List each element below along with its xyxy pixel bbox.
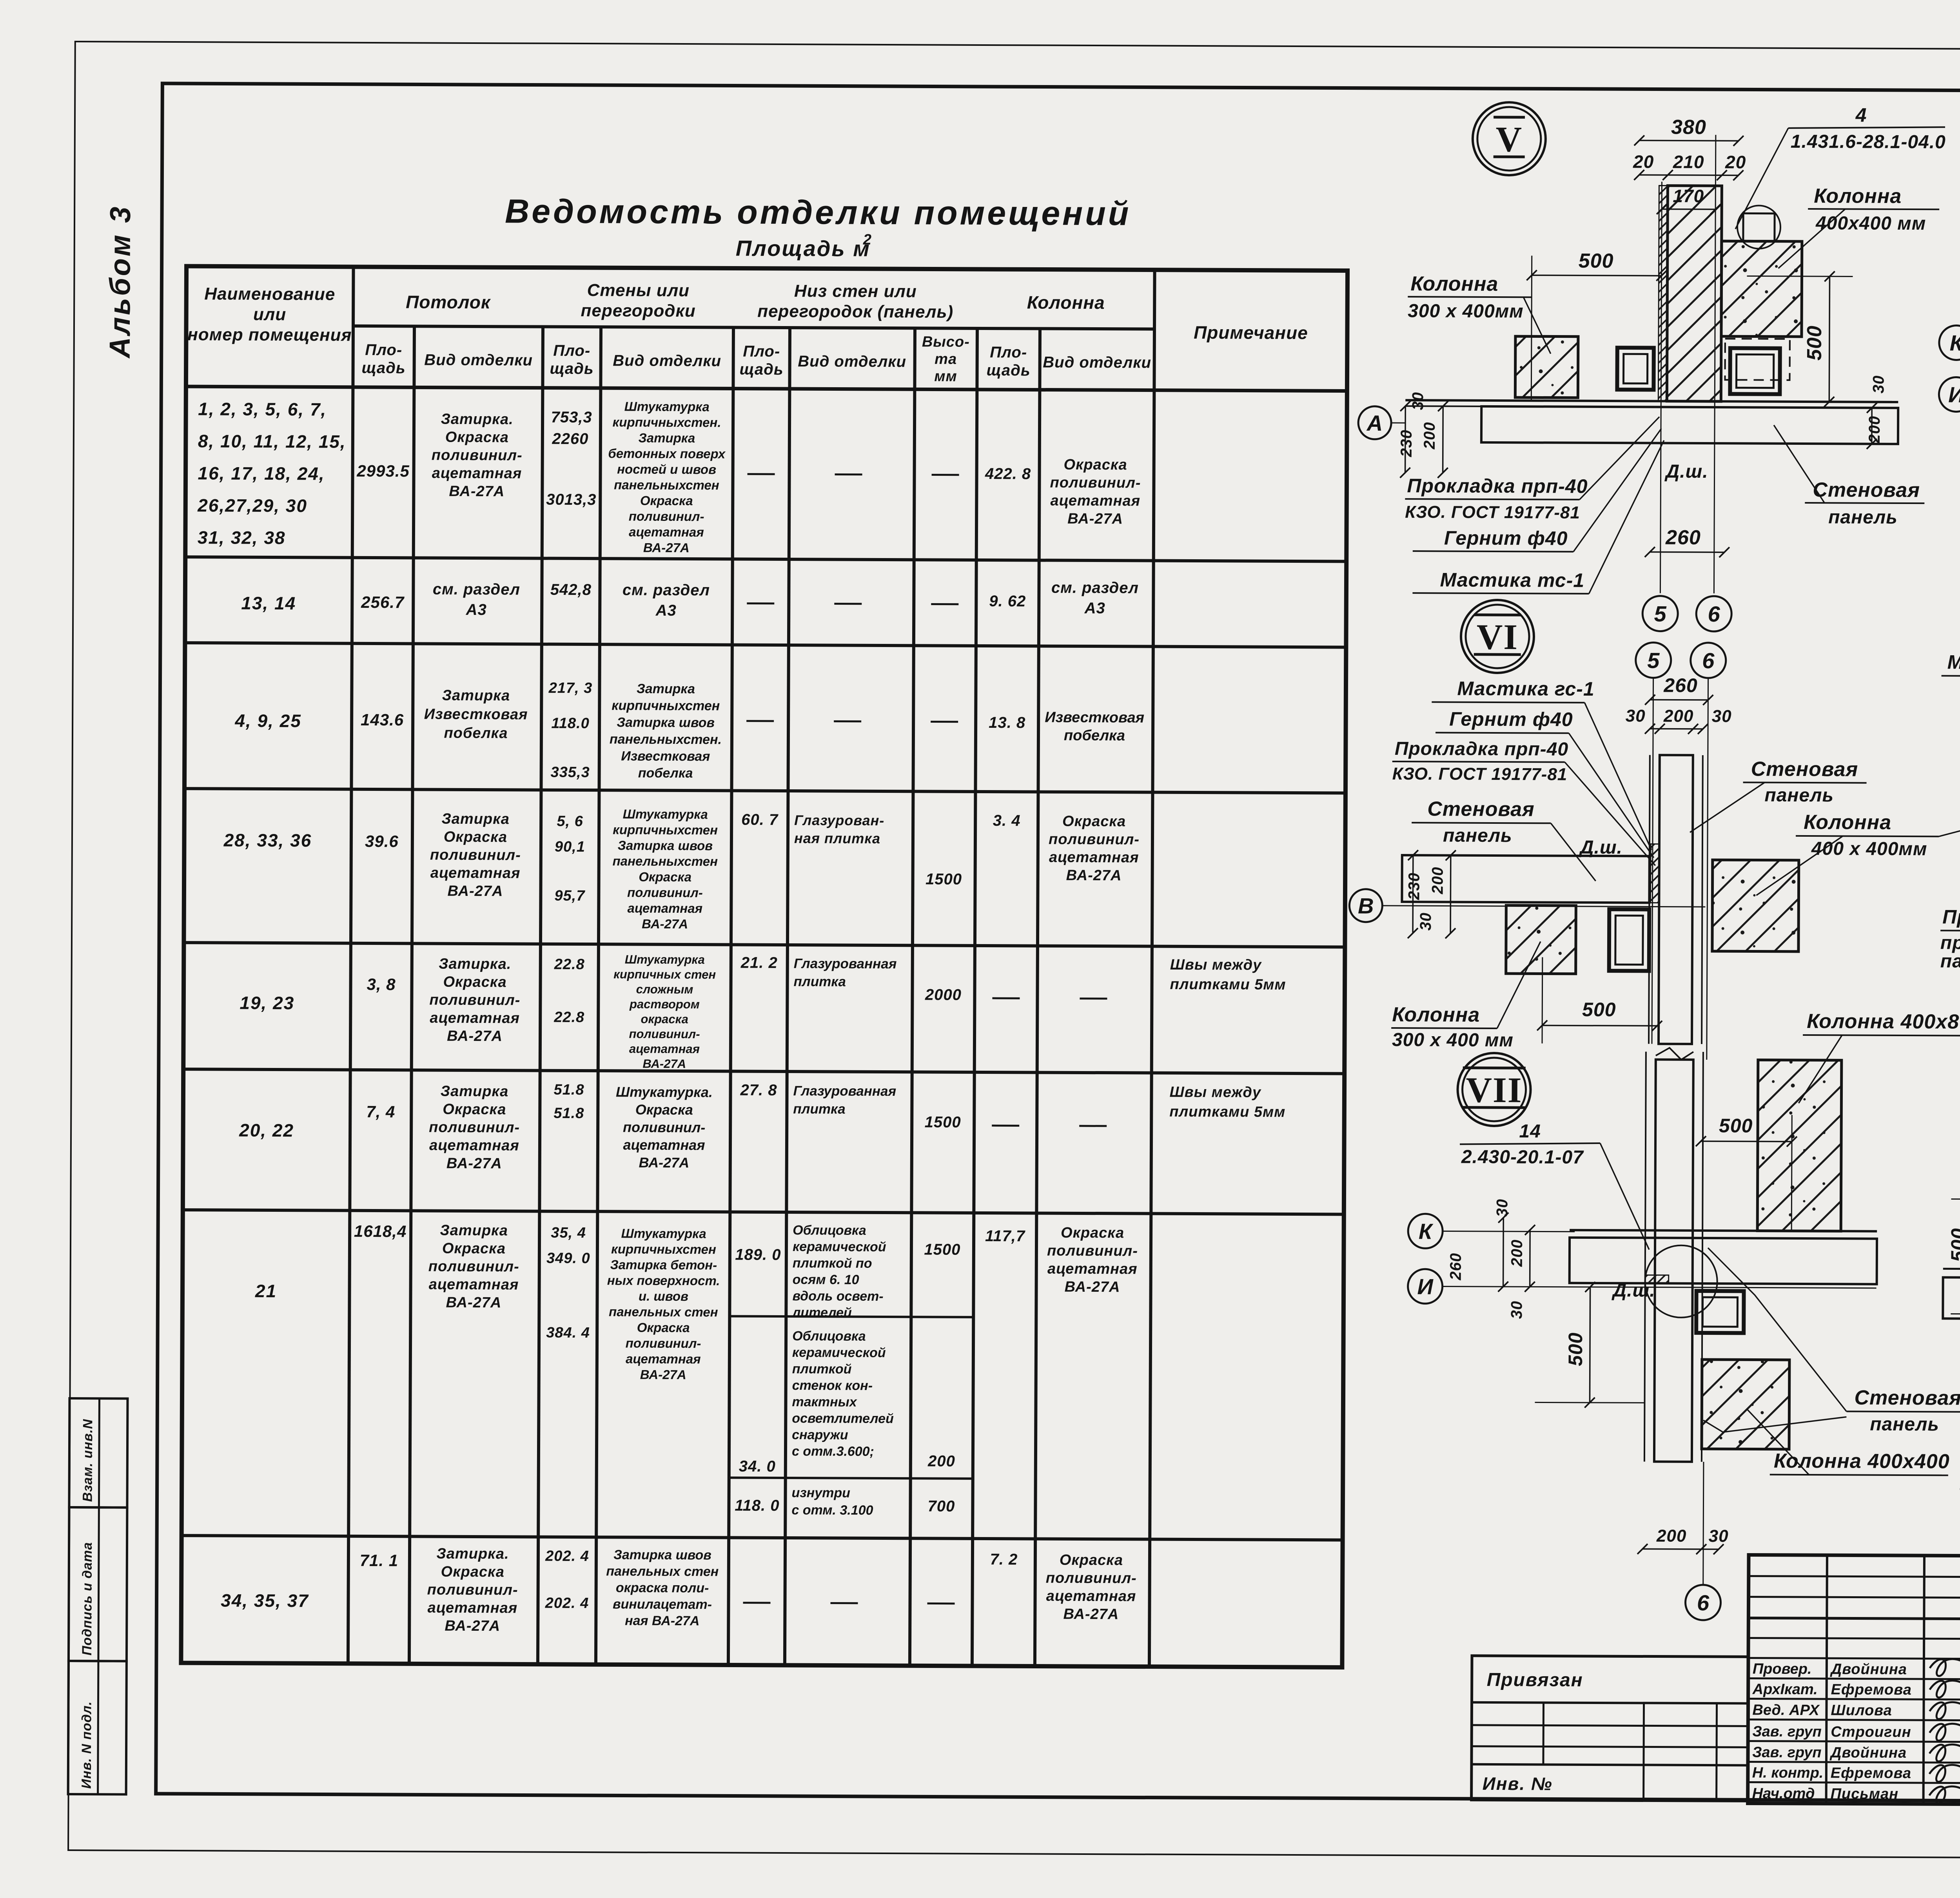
axis mark 6 — [1685, 1585, 1720, 1620]
svg-text:ВА-27А: ВА-27А — [449, 483, 505, 500]
svg-text:плиткой: плиткой — [792, 1361, 852, 1377]
empty cell dash — [831, 1602, 858, 1604]
empty cell dash — [743, 1602, 771, 1604]
svg-text:384. 4: 384. 4 — [546, 1325, 590, 1341]
svg-text:Окраска: Окраска — [442, 1240, 506, 1257]
svg-text:21. 2: 21. 2 — [740, 954, 778, 972]
svg-text:4: 4 — [1855, 104, 1867, 126]
svg-text:13, 14: 13, 14 — [241, 593, 296, 614]
svg-text:побелка: побелка — [638, 766, 693, 781]
svg-text:ацетатная: ацетатная — [1049, 849, 1139, 866]
svg-text:ВА-27А: ВА-27А — [642, 917, 688, 931]
svg-text:снаружи: снаружи — [792, 1427, 848, 1443]
embedded box below joint — [1696, 1291, 1744, 1333]
svg-text:Площадь м: Площадь м — [736, 236, 871, 261]
svg-text:И: И — [1948, 382, 1960, 407]
svg-text:170: 170 — [1673, 186, 1704, 206]
svg-text:раствором: раствором — [629, 997, 700, 1011]
svg-text:Штукатурка: Штукатурка — [621, 1226, 706, 1241]
bolt joint detail — [1743, 213, 1775, 241]
axis line 6 — [1714, 135, 1715, 593]
svg-text:1500: 1500 — [925, 1113, 961, 1131]
svg-text:500: 500 — [1947, 1228, 1960, 1262]
svg-text:Затирка: Затирка — [638, 431, 695, 446]
svg-text:ВА-27А: ВА-27А — [1066, 867, 1122, 884]
svg-text:лителей: лителей — [791, 1305, 852, 1320]
svg-text:см. раздел: см. раздел — [622, 581, 710, 599]
column 400x400 — [1721, 241, 1802, 337]
empty cell dash — [746, 720, 774, 722]
wall panel vertical — [1659, 755, 1693, 1044]
svg-text:VI: VI — [1477, 617, 1519, 657]
svg-text:189. 0: 189. 0 — [735, 1246, 781, 1264]
svg-text:Окраска: Окраска — [637, 1320, 690, 1335]
svg-text:ВА-27А: ВА-27А — [445, 1618, 500, 1635]
svg-text:ВА-27А: ВА-27А — [643, 540, 690, 555]
svg-text:Колонна: Колонна — [1392, 1003, 1480, 1026]
svg-text:118. 0: 118. 0 — [735, 1497, 779, 1514]
svg-text:Облицовка: Облицовка — [793, 1223, 866, 1238]
svg-text:Гернит ф40: Гернит ф40 — [1444, 527, 1568, 549]
svg-text:ацетатная: ацетатная — [432, 465, 522, 482]
svg-text:Затирка: Затирка — [441, 811, 510, 828]
svg-text:Ведомость отделки помещений: Ведомость отделки помещений — [505, 192, 1131, 232]
svg-text:200: 200 — [1663, 707, 1694, 726]
svg-text:260: 260 — [1663, 674, 1698, 696]
hidden outline below column (dashed) — [1725, 339, 1790, 380]
svg-text:та: та — [935, 351, 957, 367]
svg-text:Швы между: Швы между — [1170, 957, 1262, 973]
svg-text:Наименование: Наименование — [204, 284, 335, 304]
svg-text:Д.ш.: Д.ш. — [1664, 461, 1708, 482]
svg-text:поливинил-: поливинил- — [1049, 831, 1140, 848]
svg-text:30: 30 — [1709, 1526, 1729, 1546]
svg-text:Высо-: Высо- — [922, 334, 970, 350]
svg-text:7. 2: 7. 2 — [990, 1551, 1018, 1568]
svg-text:2.430-20.1-07: 2.430-20.1-07 — [1461, 1147, 1584, 1168]
svg-text:см. раздел: см. раздел — [1051, 579, 1139, 597]
svg-text:2993.5: 2993.5 — [356, 462, 410, 480]
svg-text:30: 30 — [1508, 1301, 1525, 1319]
svg-text:панель: панель — [1828, 507, 1898, 528]
svg-text:К: К — [1950, 330, 1960, 355]
svg-text:7, 4: 7, 4 — [366, 1102, 395, 1121]
svg-text:202. 4: 202. 4 — [545, 1548, 589, 1564]
svg-text:керамической: керамической — [793, 1239, 886, 1254]
row 21 inner cell splits — [730, 1316, 973, 1317]
svg-text:2000: 2000 — [925, 986, 962, 1003]
svg-text:2260: 2260 — [552, 430, 588, 448]
svg-text:500: 500 — [1564, 1332, 1586, 1366]
svg-text:6: 6 — [1702, 648, 1715, 673]
svg-text:16, 17, 18, 24,: 16, 17, 18, 24, — [198, 463, 325, 484]
svg-text:поливинил-: поливинил- — [1047, 1243, 1138, 1260]
empty cell dash — [927, 1603, 955, 1604]
svg-text:с отм. 3.100: с отм. 3.100 — [791, 1503, 873, 1518]
svg-text:400х400 мм: 400х400 мм — [1815, 213, 1926, 234]
svg-text:Окраска: Окраска — [1062, 813, 1126, 830]
svg-text:поливинил-: поливинил- — [1050, 475, 1141, 491]
svg-text:30: 30 — [1626, 706, 1646, 725]
svg-text:Двойнина: Двойнина — [1830, 1661, 1907, 1678]
svg-text:Колонна: Колонна — [1027, 292, 1105, 313]
svg-text:Глазурованная: Глазурованная — [793, 1083, 896, 1099]
svg-text:90,1: 90,1 — [555, 839, 585, 855]
svg-text:поливинил-: поливинил- — [626, 1336, 701, 1351]
svg-text:Окраска: Окраска — [1060, 1552, 1123, 1569]
svg-text:поливинил-: поливинил- — [432, 447, 523, 464]
stamp full width lines — [1748, 1618, 1960, 1621]
svg-text:51.8: 51.8 — [554, 1082, 584, 1098]
gasket at joint — [1645, 1275, 1669, 1283]
svg-text:ацетатная: ацетатная — [623, 1137, 705, 1153]
svg-text:Облицовка: Облицовка — [792, 1329, 866, 1344]
привязан section — [1472, 1656, 1748, 1801]
svg-text:230: 230 — [1398, 430, 1415, 457]
svg-text:щадь: щадь — [550, 360, 593, 377]
svg-text:перегородок (панель): перегородок (панель) — [757, 302, 953, 322]
svg-text:Окраска: Окраска — [1063, 457, 1127, 473]
svg-text:ацетатная: ацетатная — [429, 1137, 519, 1154]
svg-text:ацетатная: ацетатная — [626, 1351, 701, 1366]
svg-text:Штукатурка.: Штукатурка. — [616, 1084, 713, 1100]
column 300x400 left — [1506, 905, 1576, 974]
svg-text:Стеновая: Стеновая — [1813, 479, 1920, 502]
svg-text:Зав. груп: Зав. груп — [1752, 1724, 1822, 1740]
svg-text:Пло-: Пло- — [990, 344, 1027, 361]
svg-text:Известковая: Известковая — [621, 749, 710, 764]
svg-text:Гернит ф40: Гернит ф40 — [1449, 708, 1573, 731]
svg-text:плитка: плитка — [793, 1101, 845, 1117]
empty cell dash — [992, 1125, 1019, 1127]
svg-text:700: 700 — [927, 1497, 955, 1515]
svg-text:ных поверхност.: ных поверхност. — [607, 1273, 720, 1288]
empty cell dash — [1080, 997, 1107, 999]
table outer box — [181, 266, 1348, 1667]
svg-text:Инв. N подл.: Инв. N подл. — [79, 1701, 94, 1789]
svg-text:Вид отделки: Вид отделки — [798, 353, 906, 370]
wall panel horizontal — [1402, 855, 1649, 903]
svg-text:Окраска: Окраска — [444, 829, 507, 846]
svg-text:Окраска: Окраска — [1061, 1225, 1124, 1242]
svg-text:Окраска: Окраска — [441, 1564, 505, 1581]
svg-text:200: 200 — [1866, 416, 1883, 444]
svg-text:Глазурованная: Глазурованная — [794, 956, 897, 972]
svg-text:А3: А3 — [466, 601, 487, 618]
floor panel lines — [1405, 400, 1898, 402]
svg-text:И: И — [1417, 1274, 1434, 1299]
svg-text:Окраска: Окраска — [443, 974, 506, 991]
svg-text:3, 8: 3, 8 — [367, 975, 396, 993]
svg-text:кирпичных стен: кирпичных стен — [613, 967, 716, 981]
svg-text:Глазурован-: Глазурован- — [794, 812, 884, 828]
svg-text:4, 9, 25: 4, 9, 25 — [234, 711, 301, 731]
svg-text:поливинил-: поливинил- — [429, 992, 520, 1009]
svg-text:300 х 400 мм: 300 х 400 мм — [1392, 1030, 1514, 1051]
svg-text:Д.ш.: Д.ш. — [1579, 837, 1622, 858]
svg-text:Колонна: Колонна — [1410, 272, 1498, 295]
svg-text:Стены или: Стены или — [587, 281, 690, 300]
svg-text:Штукатурка: Штукатурка — [623, 807, 708, 821]
svg-text:260: 260 — [1665, 526, 1701, 549]
svg-text:51.8: 51.8 — [554, 1105, 584, 1122]
svg-text:кирпичныхстен: кирпичныхстен — [612, 698, 720, 713]
svg-text:поливинил-: поливинил- — [627, 885, 703, 900]
margin stamp boxes bottom-left — [69, 1398, 127, 1508]
empty cell dash — [834, 603, 862, 605]
svg-text:422. 8: 422. 8 — [985, 465, 1031, 482]
svg-text:стенок кон-: стенок кон- — [792, 1378, 873, 1393]
svg-text:перегородки: перегородки — [581, 301, 696, 321]
gasket in vertical joint — [1650, 844, 1659, 903]
svg-text:панельныхстен: панельныхстен — [612, 854, 718, 868]
svg-text:Затирка.: Затирка. — [441, 411, 513, 428]
svg-text:500: 500 — [1582, 999, 1616, 1021]
axis mark 5 — [1636, 642, 1671, 678]
svg-text:панельных стен: панельных стен — [609, 1304, 718, 1319]
svg-text:Мастика гс-1: Мастика гс-1 — [1947, 651, 1960, 673]
svg-text:поливинил-: поливинил- — [1046, 1570, 1137, 1587]
svg-text:Шилова: Шилова — [1831, 1702, 1892, 1719]
svg-text:34, 35, 37: 34, 35, 37 — [221, 1590, 309, 1611]
svg-text:Затирка швов: Затирка швов — [613, 1547, 711, 1563]
svg-text:Потолок: Потолок — [406, 292, 491, 312]
svg-text:200: 200 — [1421, 422, 1438, 450]
node marker V — [1473, 102, 1546, 176]
svg-text:ацетатная: ацетатная — [629, 524, 704, 539]
svg-text:Известковая: Известковая — [424, 706, 528, 723]
node marker VII — [1457, 1053, 1531, 1126]
svg-text:Затирка: Затирка — [637, 682, 695, 697]
svg-text:плитками 5мм: плитками 5мм — [1170, 976, 1286, 993]
svg-text:1618,4: 1618,4 — [354, 1222, 407, 1241]
svg-text:Пло-: Пло- — [743, 343, 780, 360]
svg-text:изнутри: изнутри — [792, 1485, 851, 1501]
svg-text:202. 4: 202. 4 — [545, 1595, 589, 1612]
svg-text:тактных: тактных — [792, 1394, 857, 1410]
svg-text:ВА-27А: ВА-27А — [1063, 1606, 1119, 1623]
column 300x400 left — [1515, 336, 1578, 398]
svg-text:поливинил-: поливинил- — [623, 1119, 705, 1135]
detail circle — [1645, 1245, 1717, 1318]
svg-text:Колонна 400х800: Колонна 400х800 — [1807, 1010, 1960, 1033]
svg-text:панель: панель — [1443, 825, 1512, 846]
svg-text:20: 20 — [1633, 151, 1654, 172]
svg-text:щадь: щадь — [361, 359, 405, 377]
svg-text:Колонна: Колонна — [1814, 185, 1902, 208]
svg-text:Альбом 3: Альбом 3 — [103, 205, 137, 359]
svg-text:400 х 400мм: 400 х 400мм — [1811, 838, 1927, 859]
svg-text:ацетатная: ацетатная — [428, 1600, 518, 1617]
svg-text:бетонных поверх: бетонных поверх — [608, 446, 726, 461]
wall panel vertical — [1654, 1060, 1693, 1462]
svg-text:ностей и швов: ностей и швов — [617, 462, 716, 477]
svg-text:поливинил-: поливинил- — [629, 1027, 700, 1041]
svg-text:Затирка: Затирка — [442, 687, 510, 704]
svg-text:плиткой по: плиткой по — [793, 1256, 872, 1271]
svg-text:210: 210 — [1673, 152, 1704, 172]
svg-text:217, 3: 217, 3 — [548, 680, 593, 696]
column 400x800 top right — [1757, 1060, 1842, 1231]
svg-text:Ефремова: Ефремова — [1831, 1681, 1912, 1698]
svg-text:Инв. №: Инв. № — [1483, 1773, 1553, 1794]
table row lines — [185, 557, 1347, 561]
svg-text:34. 0: 34. 0 — [739, 1458, 776, 1475]
svg-text:30: 30 — [1409, 392, 1426, 410]
svg-text:поливинил-: поливинил- — [427, 1582, 518, 1599]
embedded box — [1609, 909, 1650, 971]
svg-text:Строигин: Строигин — [1831, 1724, 1911, 1740]
svg-text:6: 6 — [1697, 1590, 1710, 1615]
svg-text:Затирка бетон-: Затирка бетон- — [610, 1257, 717, 1272]
svg-text:21: 21 — [255, 1281, 277, 1301]
empty cell dash — [931, 603, 958, 605]
empty cell dash — [1079, 1125, 1107, 1127]
svg-text:22.8: 22.8 — [554, 956, 585, 973]
svg-text:кирпичныхстен: кирпичныхстен — [611, 1242, 716, 1256]
svg-text:панель: панель — [1764, 785, 1834, 806]
svg-text:30: 30 — [1417, 912, 1434, 931]
svg-text:Затирка швов: Затирка швов — [617, 715, 715, 730]
axis lines 5,6 down — [1652, 678, 1653, 1044]
svg-text:20: 20 — [1725, 152, 1746, 172]
empty cell dash — [835, 473, 862, 475]
svg-text:ВА-27А: ВА-27А — [447, 1028, 503, 1045]
column 400x400 bottom — [1702, 1360, 1789, 1449]
svg-text:А: А — [1366, 411, 1383, 435]
svg-text:осям 6. 10: осям 6. 10 — [793, 1272, 859, 1287]
svg-text:27. 8: 27. 8 — [740, 1082, 777, 1099]
svg-text:500: 500 — [1803, 325, 1826, 361]
svg-text:ацетатная: ацетатная — [430, 865, 521, 882]
svg-text:Ефремова: Ефремова — [1831, 1765, 1911, 1782]
svg-text:753,3: 753,3 — [551, 409, 592, 426]
svg-text:номер помещения: номер помещения — [187, 325, 352, 345]
column 400x400 right — [1712, 860, 1799, 952]
svg-text:31, 32, 38: 31, 32, 38 — [198, 527, 286, 548]
svg-text:ная ВА-27А: ная ВА-27А — [625, 1613, 700, 1628]
svg-text:кирпичныхстен.: кирпичныхстен. — [613, 415, 721, 430]
svg-text:Низ стен или: Низ стен или — [794, 281, 917, 301]
svg-text:КЗО. ГОСТ 19177-81: КЗО. ГОСТ 19177-81 — [1405, 502, 1580, 522]
svg-text:200: 200 — [1429, 867, 1446, 894]
svg-text:панельныхстен: панельныхстен — [614, 477, 719, 492]
svg-text:Двойнина: Двойнина — [1829, 1744, 1907, 1761]
svg-text:30: 30 — [1494, 1199, 1511, 1217]
svg-text:Подпись и дата: Подпись и дата — [80, 1542, 95, 1656]
axis mark К — [1408, 1214, 1443, 1248]
svg-text:керамической: керамической — [792, 1345, 886, 1360]
svg-text:3. 4: 3. 4 — [993, 812, 1021, 829]
svg-text:335,3: 335,3 — [551, 764, 590, 781]
svg-text:окраска поли-: окраска поли- — [616, 1580, 709, 1595]
svg-text:Окраска: Окраска — [635, 1102, 693, 1118]
svg-text:Окраска: Окраска — [443, 1101, 506, 1118]
svg-text:30: 30 — [1870, 375, 1887, 393]
svg-text:ацетатная: ацетатная — [1047, 1261, 1138, 1278]
svg-text:3013,3: 3013,3 — [546, 491, 597, 508]
svg-text:Затирка швов: Затирка швов — [618, 838, 713, 853]
svg-text:или: или — [253, 305, 286, 324]
svg-text:30: 30 — [1712, 707, 1732, 726]
svg-text:2: 2 — [863, 232, 871, 248]
svg-text:Прокладка прп-40: Прокладка прп-40 — [1395, 738, 1568, 760]
svg-text:с отм.3.600;: с отм.3.600; — [792, 1444, 874, 1459]
axis mark А — [1358, 406, 1391, 439]
svg-text:побелка: побелка — [444, 725, 508, 742]
stamp horizontals left part — [1749, 1576, 1960, 1577]
svg-text:20, 22: 20, 22 — [239, 1120, 294, 1141]
embedded box right — [1730, 348, 1780, 394]
svg-text:см. раздел: см. раздел — [433, 581, 520, 598]
svg-text:Вид отделки: Вид отделки — [1043, 354, 1151, 372]
wall panel vertical (section) — [1667, 186, 1722, 402]
svg-text:542,8: 542,8 — [550, 581, 592, 598]
gasket strip — [1658, 186, 1668, 401]
svg-text:щадь: щадь — [986, 362, 1030, 379]
table header lines — [353, 326, 1154, 329]
svg-text:14: 14 — [1519, 1121, 1541, 1142]
svg-text:5: 5 — [1654, 602, 1667, 626]
svg-text:осветлителей: осветлителей — [792, 1411, 894, 1426]
empty cell dash — [834, 720, 861, 722]
empty cell dash — [992, 997, 1020, 999]
svg-text:кирпичныхстен: кирпичныхстен — [613, 822, 718, 837]
empty cell dash — [748, 473, 775, 475]
wall panel horizontal — [1943, 1269, 1960, 1270]
wall panel horizontal — [1481, 406, 1898, 444]
svg-text:95,7: 95,7 — [554, 888, 585, 904]
svg-text:Окраска: Окраска — [639, 870, 691, 885]
svg-text:Пло-: Пло- — [365, 341, 402, 359]
axis 6 bottom — [1703, 1462, 1704, 1584]
svg-text:60. 7: 60. 7 — [741, 811, 779, 828]
stamp verticals left part — [1826, 1555, 1827, 1804]
axis line 5 — [1660, 182, 1662, 593]
svg-text:В: В — [1358, 894, 1374, 918]
svg-text:панельныхстен.: панельныхстен. — [610, 732, 722, 747]
svg-text:плитками 5мм: плитками 5мм — [1169, 1104, 1285, 1120]
svg-text:Н. контр.: Н. контр. — [1752, 1765, 1824, 1782]
svg-text:13. 8: 13. 8 — [989, 714, 1025, 731]
svg-text:щадь: щадь — [739, 361, 783, 378]
svg-text:Д.ш.: Д.ш. — [1611, 1280, 1655, 1301]
svg-text:500: 500 — [1719, 1115, 1753, 1137]
svg-text:300 х 400мм: 300 х 400мм — [1408, 301, 1524, 322]
svg-text:ацетатная: ацетатная — [429, 1276, 519, 1293]
svg-text:V: V — [1495, 119, 1523, 159]
svg-text:Нач.отд: Нач.отд — [1752, 1786, 1815, 1802]
svg-text:ацетатная: ацетатная — [1050, 493, 1140, 509]
empty cell dash — [931, 721, 958, 723]
svg-text:ВА-27А: ВА-27А — [640, 1367, 686, 1382]
svg-text:поливинил-: поливинил- — [430, 847, 521, 864]
stamp outer — [1748, 1555, 1960, 1806]
svg-text:Затирка.: Затирка. — [436, 1546, 509, 1563]
svg-text:200: 200 — [1508, 1239, 1526, 1267]
axis mark И — [1408, 1269, 1442, 1303]
table column lines — [348, 267, 354, 1664]
svg-text:200: 200 — [1656, 1526, 1687, 1546]
axis mark И — [1939, 377, 1960, 412]
svg-text:побелка: побелка — [1064, 727, 1125, 744]
svg-text:ацетатная: ацетатная — [629, 1042, 700, 1056]
svg-text:поливинил-: поливинил- — [428, 1258, 519, 1275]
svg-text:Стеновая: Стеновая — [1854, 1387, 1960, 1410]
svg-text:Стеновая: Стеновая — [1751, 758, 1858, 781]
svg-text:118.0: 118.0 — [551, 715, 589, 732]
svg-text:и. швов: и. швов — [639, 1289, 688, 1303]
